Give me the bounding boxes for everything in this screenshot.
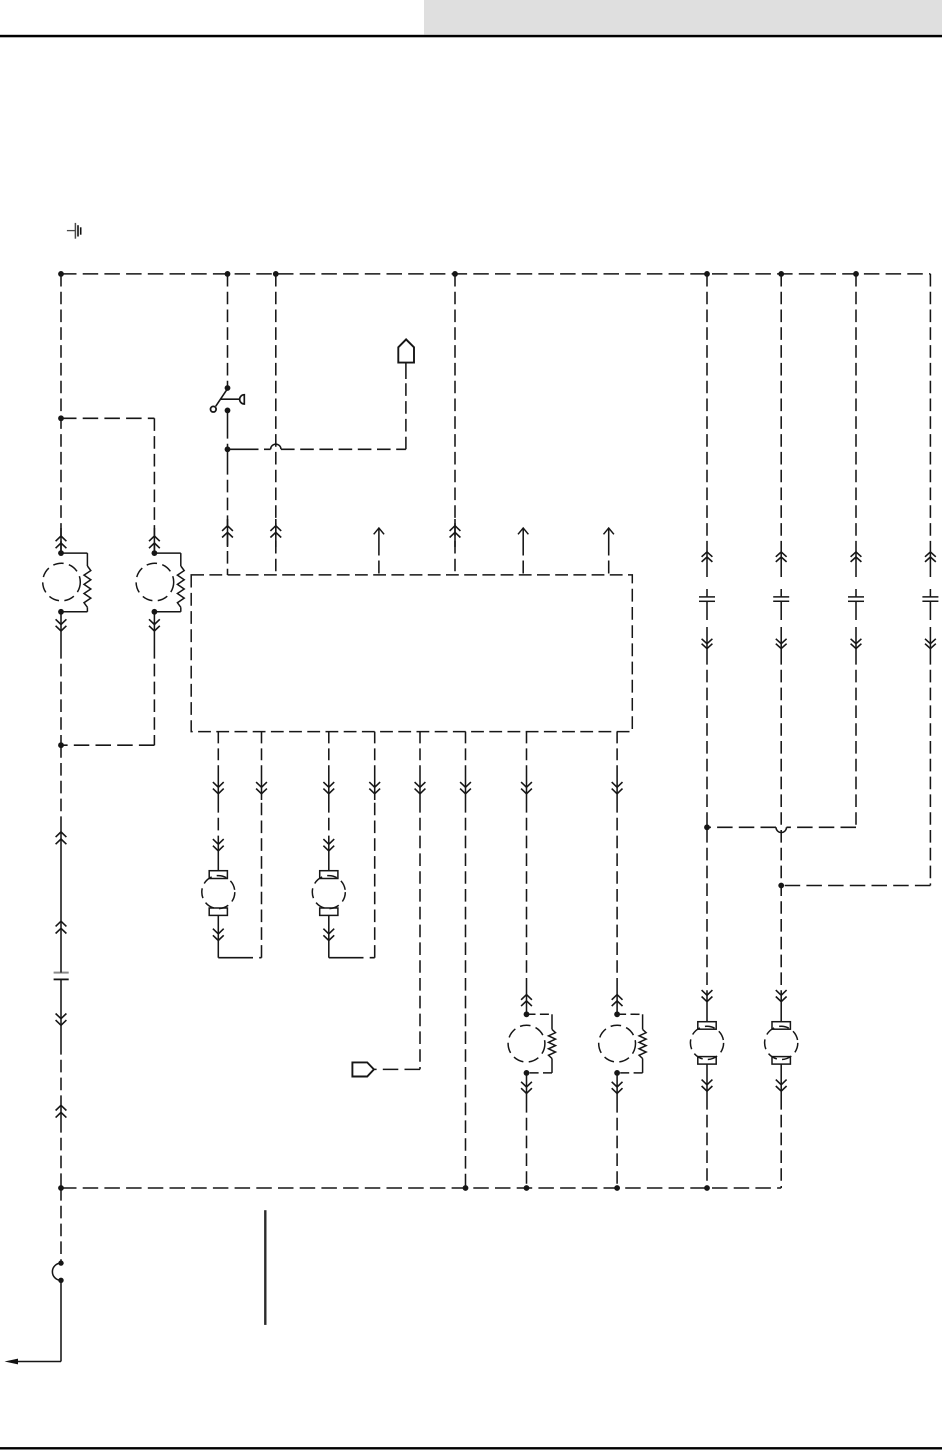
connector chevrons (left return) bbox=[56, 828, 67, 934]
wire: M5 return to ground bus bbox=[521, 1073, 532, 1188]
connector chevrons (module bottom pin 6) bbox=[460, 732, 471, 800]
wire: ground lead (solid) with arrow bbox=[5, 1280, 62, 1364]
wire+capacitor column (feed 3) with chevrons bbox=[848, 274, 864, 652]
resistor R1 (across M1) bbox=[61, 553, 91, 612]
connector chevrons (module bottom pin 1) bbox=[213, 732, 224, 800]
connector T1 (pointed terminal) bbox=[398, 339, 414, 362]
motor M4 brush caps bbox=[320, 871, 338, 916]
connector chevrons (module pin 4) bbox=[450, 519, 461, 547]
wire: module to motor M3 bbox=[213, 800, 224, 871]
wire+capacitor column (blower 1) with chevrons bbox=[699, 274, 715, 652]
resistor R2 (across M2) bbox=[154, 553, 184, 612]
wire: bus to switch S1 bbox=[227, 274, 229, 388]
wire: motor M8 return bbox=[776, 1064, 787, 1188]
wire: motor M3 return bbox=[213, 800, 262, 958]
wire: module to motor M5 bbox=[521, 800, 532, 1014]
wire: top supply bus bbox=[61, 273, 930, 275]
wire: module to motor M4 bbox=[323, 800, 334, 871]
connector chevrons (left lower) bbox=[56, 1099, 67, 1120]
wire: bus feed to module pin 4 bbox=[454, 274, 456, 575]
wire: ground bus (bottom) bbox=[61, 1187, 781, 1189]
motor M7 (dashed case) bbox=[690, 1026, 723, 1059]
motor M6 (dashed case) bbox=[599, 1025, 636, 1062]
wire: node A down to module bbox=[227, 462, 229, 575]
node: junction col707 / crosslink bbox=[704, 824, 710, 830]
node: ground bus junctions bbox=[58, 1185, 710, 1191]
ground (chassis) symbol bbox=[67, 223, 81, 239]
header shaded title block bbox=[424, 0, 942, 35]
connector chevrons (module pin 1) bbox=[222, 519, 233, 547]
wire: col 781 run bbox=[780, 652, 782, 995]
wire: left run to lower bus bbox=[60, 1042, 62, 1099]
wire: switch to node A bbox=[227, 410, 229, 462]
node: M2 + terminal bbox=[152, 550, 158, 556]
node: top bus junctions bbox=[58, 271, 859, 277]
footer rule bbox=[0, 1447, 942, 1449]
motor M8 brush caps bbox=[772, 1022, 790, 1064]
wire: module to motor M6 bbox=[612, 800, 623, 1014]
motor M7 brush caps bbox=[698, 1022, 716, 1064]
wire: col 707 run bbox=[706, 652, 708, 995]
motor M5 (dashed case) bbox=[508, 1025, 545, 1062]
node: returns joined bbox=[58, 742, 64, 748]
pin stub arrow (module top 5) bbox=[604, 528, 614, 575]
node: M2 - terminal bbox=[152, 609, 158, 615]
node: M5 + terminal bbox=[524, 1011, 530, 1017]
wire: branch to second motor bbox=[61, 418, 154, 553]
wire: crosslink 856-to-707 (hop over 781) bbox=[707, 652, 856, 833]
motor M4 (dashed case) bbox=[312, 876, 345, 909]
node: junction col781 / crosslink bbox=[778, 883, 784, 889]
motor M3 (dashed case) bbox=[202, 876, 235, 909]
connector chevrons (motor M1 supply) bbox=[56, 528, 67, 553]
wire+capacitor column (feed 4) with chevrons bbox=[922, 274, 938, 652]
wire: into ground bus bbox=[60, 1120, 62, 1188]
node: M6 - terminal bbox=[614, 1070, 620, 1076]
wire: motor M4 return bbox=[323, 800, 374, 958]
connector chevrons (module bottom pin 8) bbox=[612, 732, 623, 800]
connector chevrons (motor M2 supply) bbox=[149, 528, 160, 553]
wire: module return to ground bus bbox=[465, 800, 467, 1188]
node: M5 - terminal bbox=[524, 1070, 530, 1076]
wire: node A to connector T1 (with hop) bbox=[228, 363, 406, 450]
wire+capacitor column (blower 2) with chevrons bbox=[773, 274, 789, 652]
wire: M2 return run bbox=[61, 646, 154, 745]
connector chevrons (module bottom pin 4) bbox=[369, 732, 380, 800]
connector chevrons (module bottom pin 3) bbox=[323, 732, 334, 800]
node: M1 + terminal bbox=[58, 550, 64, 556]
header rule bbox=[0, 35, 942, 38]
wire: M1 return run bbox=[60, 646, 62, 745]
wire: left feed (top bus down to fan motor) bbox=[60, 274, 62, 553]
connector chevrons (module bottom pin 7) bbox=[521, 732, 532, 800]
connector chevrons (below C-left) bbox=[56, 1014, 67, 1026]
wire: left return run bbox=[60, 745, 62, 828]
resistor (across M6) bbox=[617, 1014, 646, 1073]
resistor (across M5) bbox=[527, 1014, 556, 1073]
page reference bar bbox=[264, 1210, 266, 1325]
connector chevrons (module bottom pin 5) bbox=[415, 732, 426, 800]
wire: module to sensor connector T2 bbox=[374, 800, 420, 1069]
capacitor / inline joint C-left bbox=[54, 924, 69, 1042]
pin stub arrow (module top 4) bbox=[518, 528, 528, 575]
wire: motor M7 return bbox=[702, 1064, 713, 1188]
motor M8 (dashed case) bbox=[765, 1026, 798, 1059]
connector chevrons (module pin 2) bbox=[270, 519, 281, 547]
node: M1 - terminal bbox=[58, 609, 64, 615]
connector chevrons (M2 return) bbox=[149, 612, 160, 646]
motor M1 (dashed case) bbox=[43, 563, 81, 601]
wire: M6 return to ground bus bbox=[612, 1073, 623, 1188]
node: junction left/branch bbox=[58, 415, 64, 421]
pin stub arrow (module top 3) bbox=[374, 528, 384, 575]
wire: feed into motor M8 bbox=[776, 990, 787, 1022]
motor M2 (dashed case) bbox=[136, 563, 174, 601]
switch S1 (pressure switch) bbox=[211, 385, 245, 413]
control module U1 (dashed outline) bbox=[191, 575, 632, 732]
inline connector (bullet) on ground lead bbox=[52, 1260, 63, 1283]
wire: crosslink 930-to-781 bbox=[781, 652, 930, 886]
motor M3 brush caps bbox=[209, 871, 227, 916]
wire: bus feed to module pin 2 bbox=[275, 274, 277, 575]
connector chevrons (module bottom pin 2) bbox=[256, 732, 267, 800]
wire: ground bus to inline connector bbox=[60, 1188, 62, 1263]
node: M6 + terminal bbox=[614, 1011, 620, 1017]
node A: switch output junction bbox=[225, 446, 231, 452]
connector T2 (pointed terminal) bbox=[352, 1062, 374, 1076]
wire: feed into motor M7 bbox=[702, 990, 713, 1022]
connector chevrons (M1 return) bbox=[56, 612, 67, 646]
